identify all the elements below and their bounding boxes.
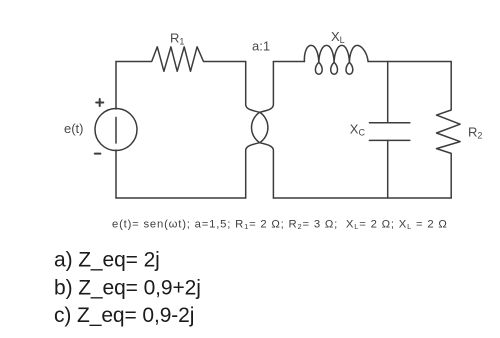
svg-text:R1: R1	[170, 31, 184, 47]
transformer T1 secondary winding	[252, 62, 274, 199]
resistor R2 zigzag right edge	[437, 62, 461, 199]
capacitor XC top plate	[369, 122, 409, 124]
svg-text:e(t): e(t)	[64, 121, 84, 136]
svg-text:a:1: a:1	[252, 39, 270, 54]
wire top-left with resistor R1 zigzag	[116, 47, 246, 72]
svg-text:c) Z_eq= 0,9-2j: c) Z_eq= 0,9-2j	[54, 304, 194, 327]
wire capacitor branch upper	[387, 62, 389, 123]
source V1 inner bar	[115, 117, 117, 143]
source V1 minus sign	[95, 153, 101, 155]
wire top-right to inductor	[273, 61, 304, 63]
source V1 plus sign	[96, 99, 103, 106]
capacitor XC bottom plate	[369, 139, 409, 141]
svg-text:b) Z_eq= 0,9+2j: b) Z_eq= 0,9+2j	[54, 276, 201, 299]
transformer T1 primary winding	[246, 62, 268, 199]
wire left upper	[115, 62, 117, 110]
wire bottom-right	[273, 197, 451, 199]
svg-text:XC: XC	[350, 121, 366, 137]
svg-text:XL: XL	[331, 29, 345, 45]
svg-text:a) Z_eq= 2j: a) Z_eq= 2j	[54, 248, 160, 271]
inductor XL coil	[304, 45, 368, 74]
wire bottom-left	[116, 197, 246, 199]
wire capacitor branch lower	[387, 140, 389, 198]
wire left lower	[115, 150, 117, 198]
wire inductor to top-right corner	[368, 61, 451, 63]
svg-text:e(t)= sen(ωt); a=1,5; R1= 2 Ω;: e(t)= sen(ωt); a=1,5; R1= 2 Ω; R2= 3 Ω; …	[112, 218, 448, 231]
svg-text:R2: R2	[468, 125, 482, 141]
source V1 circle	[95, 109, 137, 151]
